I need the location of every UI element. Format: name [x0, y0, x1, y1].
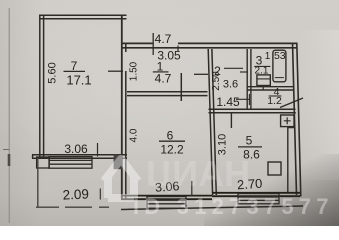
- door room1/room6: [180, 73, 182, 101]
- bottom outer sill line: [121, 206, 303, 210]
- leader label 2: [224, 67, 243, 69]
- fraction bar room3: [254, 65, 270, 67]
- dim tick 4.7: [152, 33, 154, 55]
- svg-text:2.1: 2.1: [255, 66, 269, 77]
- kitchen duct line: [288, 127, 296, 192]
- svg-text:4.7: 4.7: [155, 72, 172, 86]
- svg-text:17.1: 17.1: [66, 73, 91, 88]
- door room2 leaf: [194, 73, 208, 75]
- fraction bar room4: [269, 95, 282, 97]
- balcony: [37, 158, 39, 207]
- paper edge tick: [3, 149, 10, 151]
- wall room3/room4: [247, 87, 294, 90]
- dim line 1.45: [236, 94, 250, 105]
- svg-text:1.2: 1.2: [267, 95, 282, 107]
- wall room7/room1/room6: [121, 15, 123, 199]
- dim tick 3.06 top: [97, 143, 99, 157]
- svg-text:53: 53: [274, 50, 286, 62]
- bathtub: [273, 50, 286, 82]
- svg-text:5.60: 5.60: [47, 62, 59, 83]
- window kitchen: [238, 194, 279, 204]
- watermark logo house: [104, 159, 138, 198]
- svg-text:1.50: 1.50: [129, 61, 140, 81]
- wall pier left of window: [37, 157, 50, 168]
- dim tick 2.09: [99, 189, 101, 200]
- main top wall: [121, 43, 297, 47]
- right outer wall: [293, 43, 301, 197]
- paper edge smudge: [8, 154, 11, 166]
- paper edge line left: [8, 8, 10, 223]
- balcony dashed bottom: [36, 206, 109, 208]
- svg-text:1.45: 1.45: [216, 95, 240, 109]
- room 7 bottom wall: [32, 155, 127, 158]
- window room7/balcony: [49, 157, 92, 169]
- wall room4 bottom / kitchen top: [209, 109, 296, 112]
- fraction bar room6: [159, 140, 185, 142]
- door room7 leaf: [108, 70, 123, 72]
- fraction bar room7: [64, 70, 86, 72]
- svg-text:3.6: 3.6: [223, 79, 238, 91]
- svg-text:4.0: 4.0: [129, 128, 140, 142]
- door room4 diagonal: [280, 98, 303, 108]
- svg-text:6: 6: [167, 129, 174, 143]
- room 6 bottom wall: [121, 196, 212, 200]
- svg-text:1: 1: [265, 51, 271, 62]
- stove kitchen: [268, 162, 281, 175]
- svg-text:ЦИАН: ЦИАН: [146, 153, 250, 194]
- svg-text:ID 312737577: ID 312737577: [133, 194, 334, 219]
- wall block right of window: [114, 155, 123, 170]
- wall room2/room3: [247, 49, 251, 110]
- svg-text:7: 7: [71, 59, 78, 73]
- long divider wall rooms1,6 | 2,kitchen: [208, 49, 216, 195]
- dim tick 3.06 bottom: [191, 181, 193, 196]
- vent box +: [281, 115, 294, 127]
- wall room1/room6: [127, 92, 208, 96]
- kitchen bottom wall: [212, 193, 300, 196]
- svg-text:4.7: 4.7: [155, 32, 172, 46]
- svg-text:3.06: 3.06: [64, 142, 88, 156]
- svg-text:5: 5: [246, 134, 253, 148]
- door tick room3: [240, 71, 248, 73]
- svg-text:2.50: 2.50: [211, 71, 222, 91]
- fraction bar room5: [238, 146, 262, 148]
- door kitchen leaf: [230, 113, 232, 128]
- svg-text:2.09: 2.09: [62, 186, 89, 202]
- sink: [257, 75, 270, 86]
- room 7 left wall: [40, 15, 44, 159]
- svg-text:3.10: 3.10: [217, 134, 229, 155]
- window room6: [147, 197, 186, 209]
- dim tick 3.05: [177, 46, 179, 52]
- room 7 top wall: [39, 15, 127, 19]
- fraction bar room1: [153, 71, 169, 73]
